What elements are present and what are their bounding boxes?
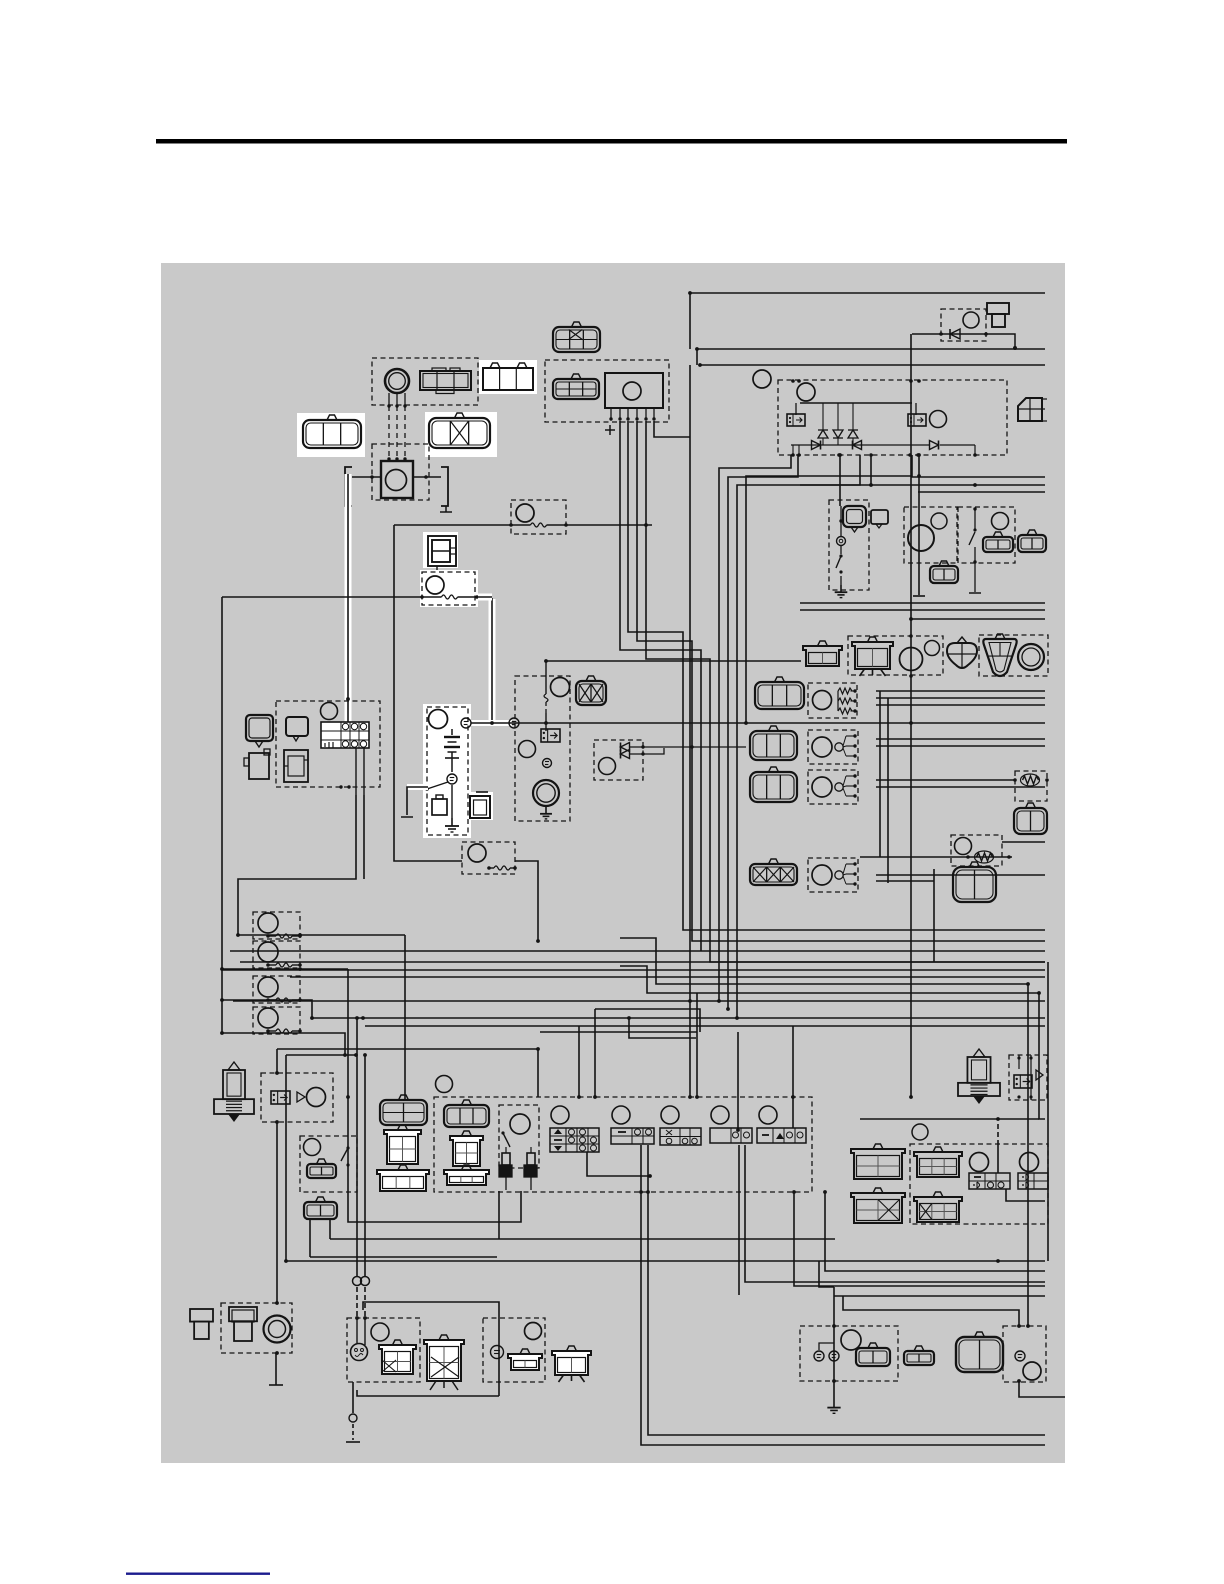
wire conn row3a [876,779,1015,781]
wire rectifier to bundle a [719,455,791,1001]
wire switch drop4 [696,993,698,1097]
wire switch drop5 [737,1032,739,1130]
wire right r4 [912,455,1045,477]
switch lamp 5 [759,1106,777,1124]
tail block 1 [969,1173,1010,1189]
indicator bubble 2 [286,717,308,741]
meter lamp [321,703,338,720]
wire battery link [447,722,518,724]
fuse element 2 [266,963,302,967]
connector 2x2 right [1018,398,1047,421]
diode D3 [848,403,858,445]
headlight cup L [377,1165,429,1191]
cdi plus mark [605,425,615,435]
wire tail top feed [860,1118,1039,1120]
wire tail out [1006,1189,1045,1201]
diode D6 [930,441,939,450]
plug relay lamp L [307,1088,326,1107]
page bottom accent line [126,1573,270,1575]
battery cell [444,729,460,772]
starter sub lamp [519,741,536,758]
tail cluster box [910,1144,1048,1224]
wire magneto drop [689,365,691,1097]
wire lampD out [1019,1382,1065,1397]
big round connector [956,1332,1003,1372]
connector cdi small [553,374,599,399]
lamp unit box 1 [808,683,857,718]
plug relay box R [1009,1055,1047,1100]
turn lamp connector [983,634,1016,676]
plug diode L [297,1092,305,1102]
taillight ring [264,1316,291,1343]
wire headlamp loop R [648,1145,1045,1435]
wire lamp vert c [933,869,935,962]
wire kill feed [347,969,349,1097]
wire regulator drop2 [918,455,920,595]
brake lamp 0 [912,1124,928,1140]
ignition coil box [372,444,429,500]
ring connector [1018,644,1044,670]
connector kill out [304,1197,337,1219]
switch block 2 [611,1128,654,1144]
cdi unit [605,373,663,408]
headlight conn in [444,1100,489,1127]
frame bracket L [345,467,352,506]
wire relay drop [276,1049,278,1073]
wire kill loop [348,1191,521,1222]
wire rectifier to bundle c [737,455,860,1018]
wire lamp row d [911,618,1045,620]
wire tail center [997,1144,999,1173]
wire lampA gnd [352,1382,354,1413]
switch lamp 3 [661,1106,679,1124]
fuse lamp 4 [258,1008,278,1028]
wire cdi pin5 run [646,421,1045,962]
plug relay wires R [1017,1055,1032,1100]
diode unit box [941,309,986,341]
headlight block in [450,1131,483,1166]
lamp B contact [491,1346,504,1359]
meter sub block 2 [284,750,308,782]
wire main switch feed casing [345,474,352,722]
aux diode 2 [621,748,665,759]
wire headlight grid feed [404,935,406,1100]
wire left lamp feed2 [286,1054,356,1056]
wire starter feed [544,659,801,663]
white window fuse B [420,570,478,607]
lamp unit box 4 [808,858,858,892]
wire hb pair B2 [745,1145,1045,1282]
wire lamp row c [876,704,1045,706]
lamp C contact 2 [829,1351,839,1361]
headlight conn grid [380,1095,427,1125]
connector horn out [930,561,958,583]
battery ground [445,818,459,832]
wire regulator drop [910,334,912,1097]
fuse main element [509,523,568,527]
tail cup 2 [914,1192,962,1222]
headlight lamp [436,1076,453,1093]
wire regulator end [913,595,925,597]
terminal U [461,718,471,728]
dim sub box [499,1105,539,1168]
wire conn row2b [876,745,1045,747]
wire cdi pin4 run [620,421,701,951]
fuse element 1 [266,934,302,938]
white window conn L [297,413,365,457]
wire lamp vert b [887,698,889,883]
wire long run 1018 [312,1017,1045,1019]
wire horn feed [839,455,841,506]
lamp box C [800,1326,898,1381]
wire conn row4a [876,874,1045,876]
wire fuse4 out [222,1033,345,1055]
wire right drop A [1027,984,1029,1326]
light switch box [958,507,1015,563]
resistor element [1013,774,1049,786]
wire run 1296 [834,1295,1045,1297]
diode D5 [853,441,862,450]
lamp unit box 3 [808,770,858,804]
cdi pins [609,408,655,421]
wire lamp row a [876,690,1045,692]
lamp B cup [508,1349,542,1370]
wire fuse B out casing [478,594,492,601]
plug pin L [499,1147,512,1190]
lamp box D [1003,1326,1046,1382]
wire lampA gnd dash [352,1424,354,1440]
connector lamp row2 [750,726,797,760]
wire lamp row b [876,697,1045,699]
fuse main box [511,500,566,534]
wire starter drop [544,661,548,731]
circuit breaker box [462,842,515,874]
battery lamp [429,710,448,729]
wire right drop D [1039,993,1045,1119]
twist pair [353,1277,370,1286]
horn bubble [871,510,888,528]
ignition coil [381,461,413,498]
diode D4 [812,441,821,450]
connector kill [307,1159,336,1178]
meter pins [339,748,364,795]
wire fuse3 out [222,1000,312,1018]
rectifier relay L [787,414,805,426]
lamp C conn [856,1343,890,1366]
rectifier bus [796,403,916,415]
wire long run 1026 [365,1025,1045,1027]
wire breaker out [515,861,538,941]
socket cup small [803,641,842,666]
wire lamp pair L dash [356,1287,358,1318]
wire switch drop6 [792,1026,794,1128]
standalone cup 2 [851,1188,905,1223]
wire pill drop b [329,1219,331,1239]
starter gnd [540,807,552,819]
wire hb pair B1 [738,1145,740,1295]
starter lamp [551,678,570,697]
wire run 1032 [540,1031,697,1033]
wire left lamp feed [277,1049,538,1097]
terminal cap tail [190,1309,213,1339]
wire lampA internals [357,1318,365,1345]
horn contact [837,537,846,546]
fuse element 3 [266,998,302,1002]
white window conn R [425,412,497,457]
connector lamp row3 [750,767,797,802]
wire run 1009 [595,1009,700,1032]
flasher relay box [848,636,943,675]
wire lampC feed [819,1261,834,1287]
lamp box B [483,1318,545,1382]
wire tail gnd tick [269,1384,283,1386]
wire long run 951 [230,950,1045,952]
connector right r3 [953,862,996,902]
wire long run 962 [240,961,1045,963]
wire lamp vert a [879,691,881,857]
wire coil gnd R [413,475,441,479]
main switch contact [447,774,457,784]
wire ignition feed [491,598,493,723]
diode unit element [939,329,988,339]
wire battery tap [401,787,428,817]
terminal B [543,759,552,768]
indicator bubble 1 [246,715,273,747]
wire rectifier to lamp feed [746,476,911,723]
headlight block L [384,1125,421,1164]
terminal cap tail 2 [229,1307,257,1341]
terminal cap [987,303,1009,327]
horn wire [840,576,842,585]
wire right drop C [1047,962,1049,1261]
spark plug L [214,1062,254,1122]
fuse box B [422,572,475,605]
spade connector [947,637,977,668]
lamp D contact [1015,1351,1025,1361]
wire lampA gnd tick [346,1441,360,1443]
wire top corner [689,293,691,349]
wire tail gnd drop [275,1353,277,1385]
pickup coil assembly box [372,358,478,405]
white window battery [423,704,471,838]
wire battery casing [407,784,428,790]
starter motor [533,780,559,806]
horn symbol [843,506,866,532]
resistor lamp 2 [955,838,972,855]
lamp A cup [379,1340,416,1374]
battery box [427,707,468,835]
wire horn feed b [870,455,872,485]
lamp A junction [349,1414,357,1422]
standalone cup B [552,1346,591,1382]
wire conn row2a [876,738,1045,740]
kill switch box [300,1136,357,1192]
tail cup 1 [914,1147,962,1177]
wire dimmer out [587,1152,650,1176]
wire res row [860,856,1012,858]
fuse B element [420,595,479,599]
wire long run 970 [222,969,1045,971]
meter connector block [321,722,369,748]
wire tail harness [286,1055,1045,1261]
main switch unit [428,536,456,572]
wire harness row3 [700,364,1045,366]
wire long run 1001 [233,1000,1045,1002]
starter relay [541,729,560,742]
wire coil gnd L [352,475,381,479]
dimmer switch grid [550,1128,599,1152]
resistor box right [1015,771,1047,801]
wire fuse feed [394,523,652,527]
wire horn pass [839,506,842,554]
breaker lamp [468,844,486,862]
connector lamp row1 [755,677,804,709]
plug diode R [1036,1070,1043,1080]
headlight cup in [444,1165,489,1185]
kill lever [341,1146,350,1166]
spark plug R [958,1049,1000,1104]
white window fusebox [467,792,493,820]
wire run 984 [620,938,1028,984]
wire run 1038 [629,1018,696,1038]
wire conn row1 [518,722,1045,724]
fuse box 4 [253,1007,300,1034]
rectifier edge dots [791,379,977,457]
lamp A lamp [371,1323,389,1341]
page top rule [156,139,1067,144]
resistor box 2 [951,835,1002,866]
pickup coil [385,369,409,393]
connector starter X [576,676,606,705]
wire cdi pin2 run [628,421,1045,930]
wire harness row2 [697,348,1045,350]
white window main switch [423,532,458,568]
aux diode 1 [621,743,747,752]
connector light sw2 [1018,530,1046,552]
fuse lamp 2 [258,942,278,962]
lamp unit 4 internals [812,862,857,885]
wire headlight drop2 [594,1009,596,1097]
lamp unit 3 internals [812,774,857,797]
wire lamp feed row [330,1238,835,1240]
switch lamp 2 [612,1106,630,1124]
wire main switch feed [346,474,350,722]
lamp C pill [904,1346,934,1365]
tail lamp 1 [970,1153,989,1172]
wire right mid b [800,609,1045,611]
lamp A cup big X [424,1335,464,1390]
wire tail center dash [997,1124,999,1144]
fuse lamp 1 [258,913,278,933]
wire terminal drop [986,334,1017,350]
tail block 2 [1018,1173,1048,1189]
connector light sw [983,532,1013,552]
lamp unit 1 internals [813,688,857,714]
wire lamp feed row2 [310,1256,497,1258]
connector X row4 [750,859,797,885]
wire meter feed bend [238,795,356,935]
dim sub lever [501,1131,510,1147]
wire gnd bus [222,596,422,598]
fuse block icon 2 [470,792,490,818]
rectifier bottom bus [791,445,975,455]
wire conn row4b [876,880,934,882]
wire headlight drop1 [578,1026,580,1097]
connector right r2 [1014,803,1047,834]
diode D2 [833,403,843,445]
tail lamp 2 [1020,1153,1039,1172]
bulb A [351,1344,368,1361]
rectifier relay R [908,414,926,426]
wire lamp bracket bottom [357,1390,499,1396]
rectifier monitor lamp [753,370,771,388]
lamp B lamp [525,1323,542,1340]
light switch lever [969,507,981,593]
connector pickup [420,368,471,394]
fuse box 1 [253,912,300,939]
white window pickup conn [479,360,537,394]
headlight assembly box [434,1097,812,1192]
wire diode box link [912,333,943,335]
wire lamp bracket top [363,1302,499,1396]
plug pin R [524,1147,537,1190]
plug relay L [271,1091,290,1104]
wire cdi pin1 run [654,421,690,437]
dim relay lamp [931,513,947,529]
switch lamp 4 [711,1106,729,1124]
frame bracket R [441,467,448,506]
connector main L [303,415,361,448]
wire lamp pair R dash [364,1287,366,1318]
connector sub harness [483,363,533,390]
taillight dots [275,1301,279,1355]
diode D1 [818,403,828,445]
wire battery link casing [468,720,512,726]
dim relay coil [908,525,934,551]
wire conn row3b [876,786,1045,788]
fuse block icon [432,795,447,815]
meter sub block 1 [244,749,270,779]
wire battery main drop [394,525,462,861]
wire right mid a [800,602,1045,604]
flasher cup [852,637,893,676]
lamp unit box 2 [808,730,858,764]
wire ignition feed casing [489,599,496,723]
wire headlight out [498,1191,500,1239]
wire pickup to coil [387,393,406,461]
lamp C gnd [827,1400,840,1413]
wire battery gnd [451,785,453,818]
dim relay box [904,507,957,563]
wire main harness top [690,292,1045,294]
wire relay to tail [276,1122,278,1303]
fuse main lamp [516,504,534,522]
lamp C contact 1 [814,1351,824,1361]
wire res out [1002,841,1045,843]
wire fuse B out [477,596,492,598]
wire lampC link [819,1343,834,1350]
wire right r6 [918,491,1045,493]
starter relay box [515,676,570,821]
rectifier lamp [797,383,815,401]
wire rectifier to bundle b [728,455,798,1009]
plug relay R [1014,1075,1032,1088]
wire kill box pass [347,1097,349,1192]
dim sub lamp [510,1114,530,1134]
lamp box A [347,1318,420,1382]
wire row2 corner [696,349,698,365]
kill switch lamp [304,1139,321,1156]
